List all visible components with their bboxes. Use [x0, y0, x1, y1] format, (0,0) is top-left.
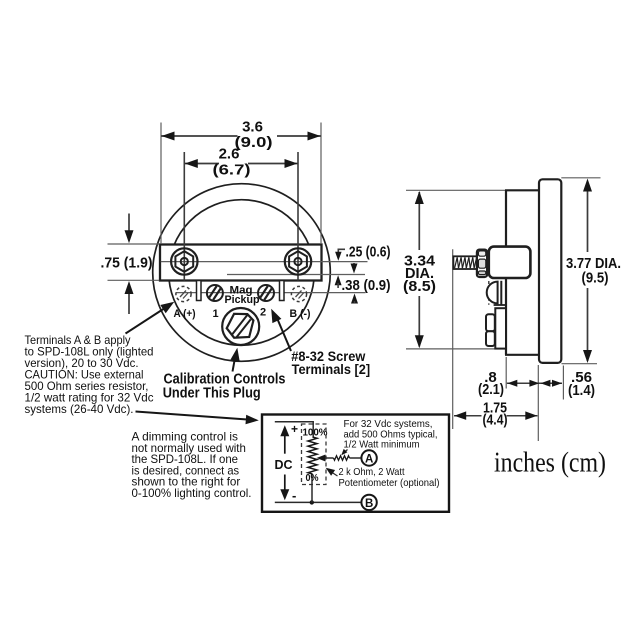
DC up arrow [284, 434, 286, 454]
side view: extension line top (3.34) and case top [406, 189, 506, 191]
leader note to terminal A [126, 306, 169, 334]
rear screw head (side, hidden dashed) [488, 281, 490, 305]
note for 32 Vdc systems [344, 419, 438, 451]
gauge inner circle (front view) [169, 200, 315, 346]
svg-text:-: - [292, 488, 296, 503]
svg-text:B: B [365, 498, 373, 510]
dim 3.6 extension lines [160, 123, 162, 245]
dim .75 extension lines [108, 243, 160, 245]
potentiometer bottom wire [311, 474, 313, 502]
threaded stud [453, 256, 477, 269]
extension line stud end [452, 249, 454, 429]
leader to potentiometer [329, 471, 338, 477]
leader from note to resistor [343, 450, 348, 454]
dimming schematic box [262, 415, 449, 512]
screw terminal 1 [207, 285, 223, 301]
hex terminal nut B (right) [285, 248, 311, 274]
note dimming control [132, 431, 252, 501]
extension line 3.34 bottom [406, 348, 495, 350]
extension line left terminal center [183, 152, 185, 281]
dim .38 arrows [335, 275, 342, 285]
dim 2.6 line with arrows [184, 163, 219, 165]
svg-text:(8.5): (8.5) [403, 278, 436, 295]
rear terminal knob lower [486, 331, 495, 346]
stud hex nut (side) [477, 250, 487, 277]
extension line 3.77 top [561, 177, 600, 179]
svg-text:2.6: 2.6 [219, 146, 240, 163]
svg-text:Potentiometer (optional): Potentiometer (optional) [339, 478, 440, 489]
pin 2 below strip [280, 281, 285, 301]
note terminals A and B [25, 334, 154, 416]
extension line right terminal center [297, 152, 299, 281]
svg-text:(1.4): (1.4) [568, 382, 595, 399]
svg-text:0%: 0% [306, 472, 320, 484]
dim .8 [507, 382, 562, 384]
extension lines below side view [505, 357, 507, 389]
dim 3.77 [587, 183, 589, 252]
svg-text:inches (cm): inches (cm) [494, 448, 606, 479]
reference line through screw centers [176, 292, 366, 294]
series resistor 500 ohm [334, 456, 350, 461]
svg-text:+: + [291, 422, 298, 436]
reference line through terminal centers [161, 261, 368, 263]
svg-text:A (+): A (+) [174, 308, 196, 320]
svg-text:DC: DC [275, 457, 294, 472]
dim .25 bracket and arrows [338, 249, 345, 252]
rear terminal bracket [495, 308, 506, 348]
terminal strip [160, 245, 322, 281]
svg-text:(6.7): (6.7) [213, 162, 251, 179]
gauge outer circle (front view) [153, 184, 331, 362]
svg-text:(4.4): (4.4) [483, 412, 508, 429]
svg-text:A: A [365, 454, 373, 466]
svg-text:(9.0): (9.0) [235, 134, 273, 151]
screw terminal 2 [258, 285, 274, 301]
svg-text:(9.5): (9.5) [582, 270, 609, 287]
dim .56 [540, 380, 550, 387]
side view: case bottom [505, 354, 540, 356]
svg-text:1: 1 [212, 308, 218, 320]
extension line bezel bottom right [562, 363, 598, 365]
DC down arrow [284, 475, 286, 491]
wire top [275, 422, 313, 437]
svg-text:systems (26-40 Vdc).: systems (26-40 Vdc). [25, 403, 134, 416]
terminal B circle [361, 495, 376, 510]
potentiometer dashed outline [302, 424, 327, 485]
rear terminal knob upper [486, 314, 495, 331]
reference line strip lower [227, 274, 365, 276]
svg-text:0-100% lighting control.: 0-100% lighting control. [132, 487, 252, 500]
dim .75 arrows [128, 214, 130, 233]
leader to screw terminal 2 [276, 315, 292, 352]
svg-text:Pickup: Pickup [225, 294, 260, 306]
terminal A circle [361, 450, 376, 465]
leader to calibration plug [233, 353, 237, 372]
hex terminal nut A (left) [171, 248, 197, 274]
dim 1.75 [454, 415, 482, 417]
dashed lamp terminal A [176, 286, 191, 301]
junction dot [310, 500, 314, 504]
note 2k potentiometer [339, 467, 440, 489]
dim 3.34 [418, 192, 420, 250]
wire bottom [275, 501, 362, 503]
svg-text:.75 (1.9): .75 (1.9) [101, 255, 153, 272]
dashed lamp terminal B [291, 286, 306, 301]
calibration plug [222, 308, 259, 345]
svg-text:100%: 100% [303, 427, 329, 439]
dim 3.6 line with arrows [161, 135, 238, 137]
svg-text:1/2 Watt minimum: 1/2 Watt minimum [344, 440, 420, 451]
svg-text:3.6: 3.6 [242, 119, 263, 136]
svg-text:(2.1): (2.1) [478, 381, 504, 398]
stud mount block [489, 247, 531, 278]
svg-text:2 k Ohm, 2 Watt: 2 k Ohm, 2 Watt [339, 467, 405, 478]
svg-text:2: 2 [260, 307, 266, 319]
potentiometer resistor [308, 437, 317, 474]
leader note to dimming box [136, 412, 250, 420]
svg-text:Terminals [2]: Terminals [2] [292, 362, 371, 377]
svg-text:Under This Plug: Under This Plug [163, 386, 261, 402]
svg-text:B (-): B (-) [290, 308, 311, 320]
svg-text:.38 (0.9): .38 (0.9) [342, 277, 391, 294]
wire to A [350, 457, 362, 459]
svg-text:For 32 Vdc systems,: For 32 Vdc systems, [344, 419, 433, 430]
wiper arrow [317, 455, 326, 462]
pin 1 below strip [197, 281, 202, 301]
side view: case left edge [505, 190, 507, 354]
side view: bezel [539, 179, 561, 363]
svg-text:.25 (0.6): .25 (0.6) [346, 244, 391, 261]
